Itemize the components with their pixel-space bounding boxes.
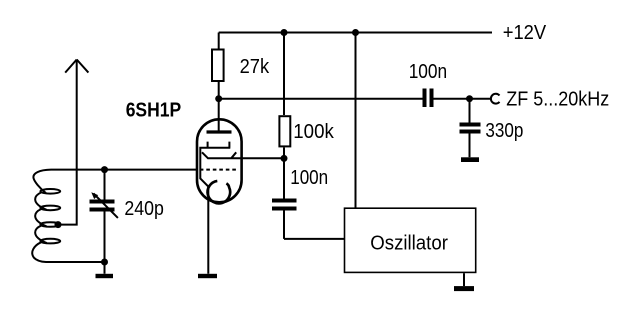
- svg-text:+12V: +12V: [503, 22, 547, 44]
- svg-text:100n: 100n: [409, 61, 448, 83]
- svg-text:330p: 330p: [485, 120, 523, 142]
- svg-text:Oszillator: Oszillator: [370, 232, 448, 254]
- svg-text:100n: 100n: [290, 167, 328, 189]
- svg-text:27k: 27k: [240, 56, 270, 78]
- svg-text:6SH1P: 6SH1P: [126, 99, 182, 121]
- svg-text:240p: 240p: [124, 198, 163, 220]
- svg-text:100k: 100k: [293, 121, 334, 143]
- svg-text:ZF 5...20kHz: ZF 5...20kHz: [506, 88, 609, 110]
